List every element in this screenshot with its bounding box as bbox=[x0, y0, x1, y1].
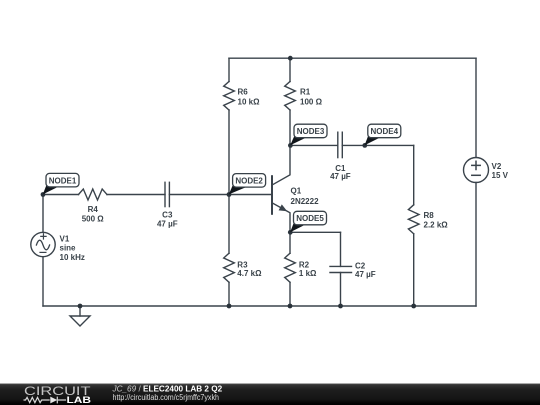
svg-text:47 µF: 47 µF bbox=[355, 270, 376, 279]
svg-text:10 kHz: 10 kHz bbox=[60, 253, 85, 262]
svg-text:1 kΩ: 1 kΩ bbox=[299, 269, 317, 278]
svg-text:LAB: LAB bbox=[67, 395, 92, 405]
svg-text:100 Ω: 100 Ω bbox=[300, 97, 323, 106]
svg-text:47 µF: 47 µF bbox=[330, 172, 351, 181]
svg-text:NODE4: NODE4 bbox=[371, 127, 399, 136]
svg-text:sine: sine bbox=[60, 244, 77, 253]
svg-text:500 Ω: 500 Ω bbox=[82, 214, 105, 223]
svg-text:Q1: Q1 bbox=[291, 187, 302, 196]
svg-text:2N2222: 2N2222 bbox=[291, 197, 320, 206]
svg-text:V1: V1 bbox=[60, 234, 70, 243]
svg-text:2.2 kΩ: 2.2 kΩ bbox=[424, 221, 449, 230]
svg-text:C3: C3 bbox=[162, 211, 173, 220]
svg-text:47 µF: 47 µF bbox=[157, 219, 178, 228]
svg-text:NODE1: NODE1 bbox=[49, 177, 77, 186]
svg-text:10 kΩ: 10 kΩ bbox=[238, 97, 261, 106]
svg-text:15 V: 15 V bbox=[492, 171, 509, 180]
svg-text:4.7 kΩ: 4.7 kΩ bbox=[237, 269, 262, 278]
svg-text:V2: V2 bbox=[492, 162, 502, 171]
svg-text:http://circuitlab.com/c5rjmffc: http://circuitlab.com/c5rjmffc7yxkh bbox=[113, 393, 220, 402]
svg-text:R1: R1 bbox=[300, 87, 311, 96]
svg-text:NODE5: NODE5 bbox=[296, 214, 324, 223]
svg-text:R4: R4 bbox=[88, 205, 99, 214]
svg-text:NODE3: NODE3 bbox=[297, 127, 325, 136]
svg-text:NODE2: NODE2 bbox=[235, 177, 263, 186]
svg-text:R8: R8 bbox=[424, 211, 435, 220]
svg-text:R6: R6 bbox=[238, 87, 249, 96]
